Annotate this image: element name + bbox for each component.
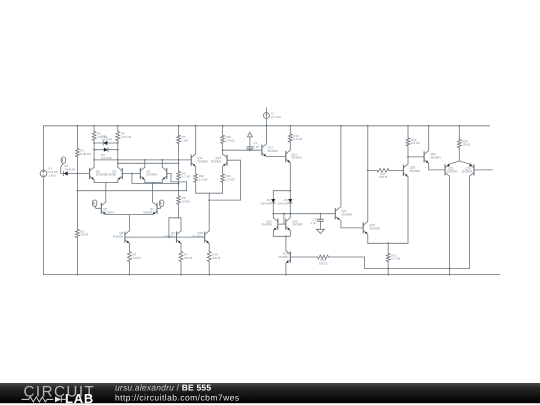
diode D1: [94, 142, 103, 144]
resistor R3: [128, 243, 130, 251]
logo resistor diode glyph: [22, 397, 67, 403]
svg-text:2N3904: 2N3904: [430, 156, 441, 160]
svg-text:4.87 kΩ: 4.87 kΩ: [121, 135, 132, 139]
svg-text:4.7 kΩ: 4.7 kΩ: [391, 257, 401, 261]
svg-text:10 kΩ: 10 kΩ: [182, 199, 191, 203]
wire column x=408: [407, 146, 409, 164]
wire pair3 emitters: [196, 192, 223, 194]
svg-text:1N4148: 1N4148: [260, 201, 271, 205]
svg-text:3.9 kΩ: 3.9 kΩ: [293, 137, 303, 141]
svg-text:240 Ω: 240 Ω: [212, 256, 221, 260]
resistor R2: [76, 229, 80, 237]
diode D3: [94, 149, 103, 151]
svg-text:100 Ω: 100 Ω: [319, 261, 328, 265]
wire Q23 base out: [474, 169, 493, 171]
transistor Q10: [204, 232, 206, 242]
svg-text:2N3906: 2N3906: [197, 159, 208, 163]
transistor Q13: [261, 145, 263, 155]
svg-text:2N3904: 2N3904: [447, 170, 458, 174]
svg-text:2N3906: 2N3906: [210, 159, 221, 163]
svg-text:2N3906: 2N3906: [106, 173, 117, 177]
transistor Q4: [139, 168, 141, 178]
resistor R13: [289, 126, 291, 134]
resistor R16: [407, 126, 409, 138]
svg-text:1N4148: 1N4148: [277, 201, 288, 205]
node junctions top rail: [77, 125, 79, 127]
svg-text:http://circuitlab.com/cbm7wes: http://circuitlab.com/cbm7wes: [115, 393, 240, 403]
svg-text:2N3904: 2N3904: [192, 234, 203, 238]
svg-text:2N3906: 2N3906: [146, 173, 157, 177]
wire Q21 emitter to output pair: [429, 169, 445, 171]
transistor Q8: [124, 232, 126, 242]
wire pair1 emitters: [93, 180, 95, 183]
svg-text:10 kΩ: 10 kΩ: [80, 233, 89, 237]
wire R6 column down: [117, 141, 119, 168]
wire D2 to Q2 base: [68, 173, 90, 175]
svg-text:100 Ω: 100 Ω: [379, 175, 388, 179]
resistor R17: [368, 169, 377, 171]
wire Q17 emitter to Q19 base: [341, 227, 363, 229]
resistor R7: [180, 243, 182, 251]
wire R5 down: [178, 143, 180, 171]
wire VCC top rail: [44, 125, 490, 127]
resistor R1: [76, 126, 78, 149]
wire flip-flop to Q17: [273, 213, 335, 215]
wire mirror base bus: [125, 236, 205, 238]
wire Q3 base: [122, 173, 140, 175]
transistor Q9: [176, 232, 178, 242]
svg-text:2N3906: 2N3906: [410, 169, 421, 173]
resistor R5: [178, 126, 180, 135]
svg-text:2N3904: 2N3904: [103, 211, 114, 215]
resistor R6: [117, 126, 119, 132]
node junctions bottom rail: [77, 274, 79, 276]
wire ground bottom rail: [44, 274, 501, 276]
voltage source V1: [43, 126, 45, 170]
transistor Q5: [166, 168, 168, 178]
transistor Q19: [362, 223, 364, 233]
transistor Q18: [289, 252, 291, 262]
svg-text:4.7 kΩ: 4.7 kΩ: [182, 175, 192, 179]
transistor Q23: [459, 161, 469, 164]
svg-text:2N3906: 2N3906: [369, 227, 380, 231]
wire Q22 collector to ground: [449, 176, 451, 274]
wire Q14 emitter down: [289, 163, 291, 191]
ground: [319, 221, 321, 229]
svg-text:ursu.alexandru / BE 555: ursu.alexandru / BE 555: [115, 382, 211, 392]
svg-text:LAB: LAB: [65, 391, 94, 405]
node flag CTRL: [159, 200, 163, 206]
resistor R10: [222, 126, 224, 135]
wire flip-flop top: [273, 190, 290, 192]
wire pair lower emitters: [105, 214, 107, 216]
resistor R4: [93, 126, 95, 132]
svg-text:1N4148: 1N4148: [102, 137, 113, 141]
wire to Q21 base: [408, 156, 424, 158]
current source I1: [265, 108, 267, 113]
transistor Q12: [226, 155, 228, 165]
wire VCC column x=367.8: [367, 126, 369, 222]
svg-text:2N3904: 2N3904: [291, 156, 302, 160]
wire collector bus: [94, 159, 191, 161]
diode D5: [289, 191, 291, 199]
svg-text:1.2 kΩ: 1.2 kΩ: [226, 177, 236, 181]
node flag TRIG: [61, 157, 65, 163]
transistor Q3: [121, 168, 123, 178]
svg-text:5.6 kΩ: 5.6 kΩ: [226, 139, 236, 143]
resistor R15: [387, 243, 389, 253]
svg-text:2N3906: 2N3906: [292, 223, 303, 227]
wire R8 to flip-flop branch: [178, 204, 180, 218]
svg-text:2N3904: 2N3904: [113, 234, 124, 238]
resistor R9: [177, 171, 181, 179]
svg-text:2N3904: 2N3904: [278, 255, 289, 259]
wire pair2 collectors: [144, 160, 146, 167]
resistor R19: [208, 243, 210, 251]
footer text: [115, 382, 240, 402]
svg-text:2N3904: 2N3904: [143, 211, 154, 215]
svg-text:6.2 kΩ: 6.2 kΩ: [411, 141, 421, 145]
svg-text:240 Ω: 240 Ω: [132, 256, 141, 260]
transistor Q21: [423, 152, 425, 162]
svg-text:1 µF: 1 µF: [253, 145, 259, 149]
CircuitLab logo: [24, 383, 96, 405]
svg-text:240 Ω: 240 Ω: [184, 256, 193, 260]
svg-text:1N4148: 1N4148: [65, 167, 76, 171]
transistor Q16 flip-flop right: [285, 219, 287, 229]
svg-text:2N3904: 2N3904: [267, 149, 278, 153]
svg-text:2N3904: 2N3904: [462, 170, 473, 174]
svg-text:1 µF: 1 µF: [310, 221, 316, 225]
capacitor C1: [247, 132, 252, 137]
wire R1 to R2: [76, 157, 78, 230]
resistor R20: [458, 126, 460, 140]
wire R4 column down: [93, 141, 95, 168]
svg-text:2N3906: 2N3906: [342, 212, 353, 216]
transistor Q6: [100, 203, 102, 213]
wire flip-flop emitters: [272, 230, 274, 236]
wire Q10 collector: [208, 200, 210, 231]
resistor R12: [195, 167, 197, 175]
wire flip-flop cross: [283, 214, 285, 224]
svg-text:10 kΩ: 10 kΩ: [462, 143, 471, 147]
wire Q23 collector: [469, 176, 471, 268]
resistor R8: [177, 196, 181, 204]
wire R14 jog: [329, 256, 365, 258]
wire Q12 base: [227, 159, 241, 161]
svg-text:0.7 mA: 0.7 mA: [271, 115, 281, 119]
svg-text:1.2 kΩ: 1.2 kΩ: [199, 177, 209, 181]
wire R9 to R8: [178, 180, 180, 196]
wire R2 to ground: [76, 238, 78, 275]
transistor Q2: [89, 168, 91, 178]
capacitor C2: [319, 214, 321, 220]
resistor R11: [222, 167, 224, 175]
wire Q19 emitter: [367, 234, 369, 243]
svg-text:1 kHz: 1 kHz: [48, 173, 56, 177]
svg-text:2N3906: 2N3906: [261, 223, 272, 227]
svg-text:8.06 kΩ: 8.06 kΩ: [80, 152, 91, 156]
wire Q5 base jog: [167, 173, 171, 175]
svg-text:1 kΩ: 1 kΩ: [182, 139, 189, 143]
wire Q13 emitter to Q14 base: [266, 156, 285, 158]
svg-text:2N3904: 2N3904: [164, 234, 175, 238]
wire pair2 emitters: [144, 180, 146, 183]
diode D4: [272, 191, 274, 199]
transistor Q20: [402, 165, 404, 175]
diode D2: [61, 173, 64, 175]
node flag THRES: [92, 200, 96, 206]
transistor Q7: [156, 203, 158, 213]
transistor Q11: [195, 126, 197, 154]
transistor Q22: [450, 161, 460, 164]
wire R10 to Q13 base: [223, 149, 262, 151]
transistor Q14: [285, 151, 287, 161]
resistor R14: [290, 256, 317, 258]
wire divider tap: [77, 190, 186, 192]
wire Q3 collector tap: [118, 162, 179, 164]
transistor Q17: [334, 209, 336, 219]
transistor Q15 flip-flop left: [277, 219, 279, 229]
